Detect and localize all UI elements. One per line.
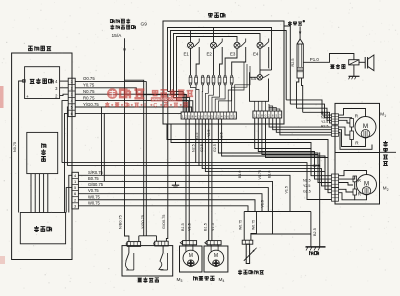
svg-text:E2: E2 xyxy=(207,52,213,57)
svg-text:G/O0.75: G/O0.75 xyxy=(162,215,166,229)
svg-text:N2.5: N2.5 xyxy=(192,144,196,152)
svg-text:R0.75: R0.75 xyxy=(83,95,95,100)
svg-text:Y2.5: Y2.5 xyxy=(195,133,199,140)
svg-text:3: 3 xyxy=(181,279,183,283)
svg-text:B2.5: B2.5 xyxy=(321,111,328,115)
svg-text:N/B0.75: N/B0.75 xyxy=(119,215,123,229)
svg-text:B0.75: B0.75 xyxy=(88,176,99,181)
svg-text:G/B0.75: G/B0.75 xyxy=(88,182,104,187)
svg-text:N0.75: N0.75 xyxy=(13,142,17,152)
svg-text:N2.5: N2.5 xyxy=(220,132,224,140)
svg-text:S/R0.75: S/R0.75 xyxy=(88,170,104,175)
svg-text:M: M xyxy=(214,253,218,259)
svg-text:1: 1 xyxy=(384,114,386,118)
svg-text:G2.5: G2.5 xyxy=(200,144,204,152)
svg-text:W0.75: W0.75 xyxy=(88,194,101,199)
svg-text:15/A: 15/A xyxy=(112,33,123,39)
svg-text:E5: E5 xyxy=(251,76,257,81)
svg-text:W0.75: W0.75 xyxy=(238,220,242,230)
svg-text:W0.75: W0.75 xyxy=(88,200,101,205)
svg-text:O0.75: O0.75 xyxy=(83,76,95,81)
svg-text:R2.5: R2.5 xyxy=(291,58,295,66)
svg-text:+: + xyxy=(26,94,29,99)
svg-text:B2.5: B2.5 xyxy=(313,164,321,168)
svg-text:WWW.DZSC.COM: WWW.DZSC.COM xyxy=(152,98,177,102)
svg-text:G2.5: G2.5 xyxy=(303,189,311,193)
svg-text:B1.5: B1.5 xyxy=(203,223,207,231)
svg-text:V1.5: V1.5 xyxy=(188,223,192,231)
svg-text:P1.0: P1.0 xyxy=(310,57,320,62)
svg-text:R2.5: R2.5 xyxy=(321,124,328,128)
svg-text:W0.75: W0.75 xyxy=(252,220,256,230)
svg-text:N0.75: N0.75 xyxy=(83,89,95,94)
svg-text:G2.5: G2.5 xyxy=(213,144,217,152)
svg-text:B1.0: B1.0 xyxy=(238,171,242,178)
svg-text:V1.5: V1.5 xyxy=(285,186,289,193)
svg-text:Y2.5: Y2.5 xyxy=(321,120,328,124)
svg-text:V1.5: V1.5 xyxy=(260,200,264,207)
svg-text:N2.5: N2.5 xyxy=(303,178,311,182)
svg-text:R: R xyxy=(358,178,361,183)
svg-text:E4: E4 xyxy=(253,52,259,57)
svg-text:Y2.5: Y2.5 xyxy=(207,130,211,137)
svg-text:B1.5: B1.5 xyxy=(181,223,185,231)
svg-text:M: M xyxy=(363,123,368,130)
svg-text:V1.5: V1.5 xyxy=(211,223,215,231)
svg-text:B2.5: B2.5 xyxy=(313,228,317,236)
svg-text:B1.0: B1.0 xyxy=(267,171,271,178)
svg-text:V0.75: V0.75 xyxy=(88,188,99,193)
svg-text:N2.5: N2.5 xyxy=(321,115,328,119)
svg-text:R: R xyxy=(358,192,361,197)
svg-text:E1: E1 xyxy=(184,52,190,57)
svg-text:Y/G0.75: Y/G0.75 xyxy=(83,102,99,107)
svg-text:G9: G9 xyxy=(141,22,148,28)
svg-text:Y/G0.75: Y/G0.75 xyxy=(141,215,145,229)
svg-text:V0.75: V0.75 xyxy=(258,170,262,179)
svg-text:Y2.5: Y2.5 xyxy=(303,184,310,188)
svg-text:2: 2 xyxy=(387,188,389,192)
svg-text:M: M xyxy=(189,253,193,259)
svg-text:E3: E3 xyxy=(230,52,236,57)
svg-text:Y0.75: Y0.75 xyxy=(83,83,95,88)
svg-text:4: 4 xyxy=(223,279,225,283)
